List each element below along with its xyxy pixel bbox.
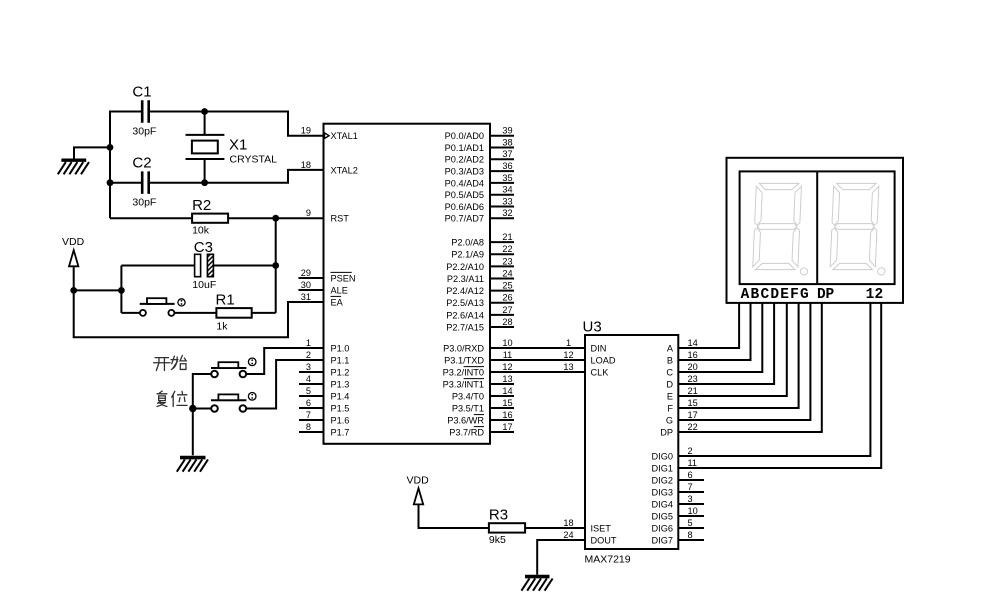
- svg-text:A: A: [667, 343, 674, 353]
- wire: [110, 112, 141, 219]
- svg-text:CLK: CLK: [591, 367, 610, 377]
- svg-text:2: 2: [688, 446, 693, 456]
- svg-text:20: 20: [688, 362, 698, 372]
- svg-text:D: D: [666, 379, 673, 389]
- svg-text:P3.6/WR: P3.6/WR: [447, 415, 484, 425]
- pin 12 LOAD: [563, 350, 616, 366]
- svg-text:8: 8: [306, 422, 311, 432]
- svg-text:A: A: [741, 287, 750, 303]
- pin 38 P0.1/AD1: [445, 137, 514, 153]
- svg-text:24: 24: [563, 530, 573, 540]
- svg-text:32: 32: [502, 208, 512, 218]
- svg-text:P2.4/A12: P2.4/A12: [446, 286, 484, 296]
- pin 39 P0.0/AD0: [445, 126, 514, 142]
- wire: [252, 312, 276, 314]
- pin 29 PSEN: [299, 268, 356, 284]
- display pin labels: [741, 287, 884, 303]
- pin 14 A: [667, 338, 698, 354]
- svg-text:F: F: [790, 287, 799, 303]
- pin 33 P0.6/AD6: [445, 196, 514, 212]
- svg-text:3: 3: [306, 362, 311, 372]
- pin 23 P2.2/A10: [446, 256, 514, 272]
- svg-text:33: 33: [502, 196, 512, 206]
- svg-text:5: 5: [688, 518, 693, 528]
- wire: [275, 218, 277, 313]
- wire: [121, 312, 139, 314]
- svg-text:16: 16: [502, 410, 512, 420]
- svg-text:P0.3/AD3: P0.3/AD3: [445, 167, 484, 177]
- svg-text:P3.4/T0: P3.4/T0: [452, 391, 484, 401]
- svg-text:P3.7/RD: P3.7/RD: [449, 427, 484, 437]
- svg-text:15: 15: [502, 398, 512, 408]
- svg-text:P0.2/AD2: P0.2/AD2: [445, 155, 484, 165]
- svg-text:1k: 1k: [216, 320, 228, 332]
- svg-text:R1: R1: [216, 292, 235, 309]
- pin 21 E: [667, 386, 698, 402]
- wire: [204, 112, 206, 183]
- svg-text:1: 1: [866, 287, 875, 303]
- svg-text:PSEN: PSEN: [331, 273, 356, 283]
- svg-text:1: 1: [306, 338, 311, 348]
- node junction: [272, 262, 279, 269]
- capacitor C2: [132, 155, 156, 209]
- pin 11 P3.1/TXD: [444, 350, 512, 366]
- pin 14 P3.4/T0: [452, 386, 514, 402]
- svg-text:30pF: 30pF: [132, 197, 156, 209]
- svg-text:DIG7: DIG7: [652, 535, 673, 545]
- svg-text:2: 2: [874, 287, 883, 303]
- svg-text:MAX7219: MAX7219: [585, 554, 631, 566]
- node junction: [70, 287, 77, 294]
- wire: [74, 147, 110, 158]
- pin 19 XTAL1: [301, 126, 358, 142]
- power VDD: [407, 475, 489, 529]
- node junction: [107, 144, 114, 151]
- svg-text:39: 39: [502, 126, 512, 136]
- svg-text:9: 9: [306, 208, 311, 218]
- svg-text:6: 6: [306, 398, 311, 408]
- wire segment A: [678, 303, 739, 348]
- svg-text:DIG1: DIG1: [652, 463, 673, 473]
- wire: [490, 359, 585, 361]
- svg-text:8: 8: [688, 530, 693, 540]
- svg-text:RST: RST: [331, 214, 350, 224]
- svg-text:10uF: 10uF: [192, 279, 216, 291]
- wire: [150, 112, 324, 136]
- digit 2 segments: [830, 183, 879, 269]
- pin 32 P0.7/AD7: [445, 208, 514, 224]
- pin 2 DIG0: [652, 446, 693, 462]
- svg-text:7: 7: [306, 410, 311, 420]
- svg-text:9k5: 9k5: [489, 534, 506, 546]
- svg-text:DOUT: DOUT: [591, 535, 617, 545]
- svg-text:14: 14: [502, 386, 512, 396]
- digit 2 dp: [878, 268, 885, 275]
- svg-text:P3.2/INT0: P3.2/INT0: [443, 367, 484, 377]
- svg-text:R2: R2: [192, 197, 211, 214]
- svg-text:B: B: [751, 287, 760, 303]
- pin 1 DIN: [566, 338, 606, 354]
- pin 26 P2.5/A13: [446, 293, 514, 309]
- wire segment E: [678, 303, 787, 396]
- svg-text:LOAD: LOAD: [591, 355, 616, 365]
- pin 24 P2.3/A11: [447, 268, 514, 284]
- svg-text:XTAL1: XTAL1: [331, 131, 358, 141]
- svg-text:27: 27: [502, 305, 512, 315]
- wire: [525, 527, 585, 529]
- svg-text:P0.1/AD1: P0.1/AD1: [445, 143, 484, 153]
- wire DIG4 stub: [678, 503, 704, 505]
- wire segment C: [678, 303, 762, 372]
- svg-text:15: 15: [688, 398, 698, 408]
- svg-text:P0.5/AD5: P0.5/AD5: [445, 190, 484, 200]
- svg-text:10: 10: [688, 506, 698, 516]
- pin 20 C: [666, 362, 697, 378]
- svg-text:5: 5: [306, 386, 311, 396]
- pin 8 DIG7: [652, 530, 693, 546]
- pin 5 DIG6: [652, 518, 693, 534]
- wire: [228, 217, 323, 219]
- wire: [246, 348, 323, 374]
- pin 6 DIG2: [652, 470, 693, 486]
- pin 8 P1.7: [299, 422, 349, 438]
- svg-text:11: 11: [503, 350, 513, 360]
- node junction: [201, 179, 208, 186]
- svg-text:P1.3: P1.3: [331, 379, 350, 389]
- pin 18 XTAL2: [301, 160, 358, 176]
- svg-text:22: 22: [688, 422, 698, 432]
- svg-text:P3.0/RXD: P3.0/RXD: [443, 343, 484, 353]
- pin 30 ALE: [299, 280, 348, 296]
- svg-text:26: 26: [502, 293, 512, 303]
- svg-text:P1.5: P1.5: [331, 403, 350, 413]
- node junction: [272, 215, 279, 222]
- svg-text:30: 30: [301, 280, 311, 290]
- svg-text:38: 38: [502, 137, 512, 147]
- wire DIG0: [678, 303, 870, 456]
- svg-text:23: 23: [688, 374, 698, 384]
- wire: [121, 265, 194, 267]
- pin 7 P1.6: [299, 410, 349, 426]
- svg-text:11: 11: [688, 458, 698, 468]
- pin 24 DOUT: [563, 530, 617, 546]
- wire segment D: [678, 303, 774, 384]
- svg-text:C: C: [666, 367, 673, 377]
- svg-text:D: D: [770, 287, 779, 303]
- svg-text:P2.0/A8: P2.0/A8: [451, 238, 484, 248]
- svg-text:X1: X1: [229, 137, 247, 154]
- svg-text:P3.3/INT1: P3.3/INT1: [443, 379, 484, 389]
- node junction: [118, 287, 125, 294]
- svg-text:29: 29: [301, 268, 311, 278]
- pin 31 EA: [301, 292, 344, 308]
- svg-text:17: 17: [502, 422, 512, 432]
- resistor R2: [192, 197, 228, 236]
- svg-text:C3: C3: [194, 239, 213, 256]
- capacitor C3: [192, 239, 216, 291]
- svg-text:34: 34: [502, 185, 512, 195]
- pin 21 P2.0/A8: [451, 232, 514, 248]
- pin 22 P2.1/A9: [451, 244, 514, 260]
- pin 11 DIG1: [652, 458, 698, 474]
- svg-text:35: 35: [502, 173, 512, 183]
- wire segment G: [678, 303, 810, 420]
- pin 28 P2.7/A15: [446, 317, 514, 333]
- pin 6 P1.5: [299, 398, 349, 414]
- pin 4 P1.3: [299, 374, 349, 390]
- svg-text:37: 37: [502, 149, 512, 159]
- svg-text:13: 13: [563, 362, 573, 372]
- svg-text:P: P: [825, 287, 834, 303]
- svg-text:VDD: VDD: [407, 475, 430, 487]
- pin 25 P2.4/A12: [446, 281, 514, 297]
- svg-text:16: 16: [688, 350, 698, 360]
- svg-text:28: 28: [502, 317, 512, 327]
- svg-text:ISET: ISET: [591, 523, 612, 533]
- wire: [193, 374, 211, 455]
- svg-text:U3: U3: [583, 319, 602, 336]
- svg-text:P2.2/A10: P2.2/A10: [446, 262, 484, 272]
- pin 1 P1.0: [306, 338, 350, 354]
- resistor R3: [489, 507, 525, 546]
- svg-text:23: 23: [502, 256, 512, 266]
- svg-text:2: 2: [306, 350, 311, 360]
- wire: [246, 360, 323, 409]
- wire segment B: [678, 303, 750, 360]
- svg-text:17: 17: [688, 410, 698, 420]
- pin 17 G: [666, 410, 698, 426]
- svg-text:13: 13: [502, 374, 512, 384]
- wire: [193, 408, 211, 410]
- svg-text:B: B: [667, 355, 673, 365]
- svg-text:DIG0: DIG0: [652, 451, 673, 461]
- svg-text:G: G: [800, 287, 809, 303]
- display DS1: [727, 158, 904, 303]
- wire DIG3 stub: [678, 491, 704, 493]
- svg-text:P3.5/T1: P3.5/T1: [452, 403, 484, 413]
- label kaishi: [154, 356, 187, 371]
- pin 7 DIG3: [652, 482, 693, 498]
- pin 36 P0.3/AD3: [445, 161, 514, 177]
- svg-text:18: 18: [301, 160, 311, 170]
- wire: [490, 371, 585, 373]
- pin 3 P1.2: [299, 362, 349, 378]
- pushbutton reset: [211, 393, 256, 412]
- pin 3 DIG4: [652, 494, 693, 510]
- ground: [177, 458, 208, 472]
- pin 17 P3.7/RD: [449, 422, 514, 438]
- wire: [174, 312, 216, 314]
- svg-text:P2.3/A11: P2.3/A11: [447, 274, 484, 284]
- node junction: [189, 405, 196, 412]
- wire: [120, 266, 122, 313]
- digit 1 segments: [753, 183, 802, 269]
- svg-text:36: 36: [502, 161, 512, 171]
- svg-text:12: 12: [563, 350, 573, 360]
- wire segment DP: [678, 303, 822, 432]
- wire: [490, 347, 585, 349]
- svg-text:C2: C2: [132, 155, 151, 172]
- wire: [537, 540, 585, 575]
- pin 22 DP: [660, 422, 698, 438]
- svg-text:P2.1/A9: P2.1/A9: [451, 250, 484, 260]
- svg-text:P1.1: P1.1: [331, 355, 350, 365]
- svg-text:CRYSTAL: CRYSTAL: [230, 154, 278, 166]
- svg-text:P1.7: P1.7: [331, 427, 350, 437]
- wire DIG2 stub: [678, 479, 704, 481]
- wire segment F: [678, 303, 798, 408]
- svg-text:12: 12: [502, 362, 512, 372]
- svg-text:P1.2: P1.2: [331, 367, 350, 377]
- ground: [521, 577, 552, 591]
- crystal X1: [186, 135, 278, 166]
- svg-text:E: E: [780, 287, 789, 303]
- pin 10 DIG5: [652, 506, 698, 522]
- svg-text:P2.7/A15: P2.7/A15: [446, 322, 484, 332]
- pin 2 P1.1: [306, 350, 350, 366]
- label fuwei: [157, 391, 187, 406]
- svg-text:22: 22: [502, 244, 512, 254]
- driver U3: [583, 319, 679, 566]
- svg-text:25: 25: [502, 281, 512, 291]
- svg-text:EA: EA: [331, 297, 344, 307]
- svg-text:7: 7: [688, 482, 693, 492]
- node junction: [201, 108, 208, 115]
- pin 23 D: [666, 374, 697, 390]
- wire DIG6 stub: [678, 527, 704, 529]
- pin 35 P0.4/AD4: [445, 173, 514, 189]
- svg-text:3: 3: [688, 494, 693, 504]
- svg-text:P3.1/TXD: P3.1/TXD: [444, 355, 484, 365]
- wire: [110, 182, 141, 184]
- svg-text:XTAL2: XTAL2: [331, 165, 358, 175]
- pushbutton start: [211, 358, 256, 377]
- svg-text:21: 21: [502, 232, 512, 242]
- wire DIG1: [678, 303, 881, 468]
- digit 1 dp: [800, 268, 807, 275]
- svg-text:P2.6/A14: P2.6/A14: [446, 310, 484, 320]
- svg-text:ALE: ALE: [331, 285, 348, 295]
- svg-text:21: 21: [688, 386, 698, 396]
- pin 5 P1.4: [299, 386, 349, 402]
- pin 16 P3.6/WR: [447, 410, 514, 426]
- wire DIG7 stub: [678, 539, 704, 541]
- svg-text:P2.5/A13: P2.5/A13: [446, 298, 484, 308]
- svg-text:C1: C1: [132, 84, 151, 101]
- svg-text:R3: R3: [489, 507, 508, 524]
- svg-text:P1.0: P1.0: [331, 343, 350, 353]
- pin 10 P3.0/RXD: [443, 338, 512, 354]
- power VDD: [62, 236, 85, 290]
- svg-text:24: 24: [502, 268, 512, 278]
- svg-text:F: F: [667, 403, 673, 413]
- svg-text:P0.0/AD0: P0.0/AD0: [445, 131, 484, 141]
- pin 13 CLK: [563, 362, 609, 378]
- svg-text:P0.7/AD7: P0.7/AD7: [445, 214, 484, 224]
- svg-text:P1.6: P1.6: [331, 415, 350, 425]
- pushbutton: [140, 298, 185, 316]
- wire: [74, 289, 122, 291]
- svg-text:31: 31: [301, 292, 311, 302]
- pin 15 F: [667, 398, 697, 414]
- svg-text:DIG3: DIG3: [652, 487, 673, 497]
- pin 12 P3.2/INT0: [443, 362, 513, 378]
- mcu U1: [324, 124, 491, 444]
- pin 27 P2.6/A14: [446, 305, 514, 321]
- wire: [150, 170, 324, 183]
- wire: [214, 265, 276, 267]
- svg-text:18: 18: [563, 518, 573, 528]
- ground: [58, 160, 89, 174]
- svg-text:C: C: [760, 287, 769, 303]
- svg-text:G: G: [666, 415, 673, 425]
- node junction: [107, 179, 114, 186]
- svg-text:14: 14: [688, 338, 698, 348]
- svg-text:DIG4: DIG4: [652, 499, 673, 509]
- pin 15 P3.5/T1: [452, 398, 514, 414]
- capacitor C1: [132, 84, 156, 138]
- svg-text:VDD: VDD: [62, 236, 85, 248]
- wire: [110, 217, 192, 219]
- resistor R1: [216, 292, 252, 333]
- pin 34 P0.5/AD5: [445, 185, 514, 201]
- wire DIG5 stub: [678, 515, 704, 517]
- wire: [74, 290, 324, 337]
- svg-text:10k: 10k: [192, 225, 210, 237]
- svg-text:P1.4: P1.4: [331, 391, 350, 401]
- svg-text:30pF: 30pF: [132, 126, 156, 138]
- pin 37 P0.2/AD2: [445, 149, 514, 165]
- svg-text:4: 4: [306, 374, 311, 384]
- svg-text:DP: DP: [660, 427, 673, 437]
- pin 18 ISET: [563, 518, 611, 534]
- svg-text:P0.4/AD4: P0.4/AD4: [445, 178, 484, 188]
- svg-text:1: 1: [566, 338, 571, 348]
- svg-text:P0.6/AD6: P0.6/AD6: [445, 202, 484, 212]
- svg-text:E: E: [667, 391, 673, 401]
- svg-text:19: 19: [301, 126, 311, 136]
- svg-text:6: 6: [688, 470, 693, 480]
- pin 13 P3.3/INT1: [443, 374, 514, 390]
- pin 9 RST: [306, 208, 349, 224]
- svg-text:DIG2: DIG2: [652, 475, 673, 485]
- svg-text:DIG6: DIG6: [652, 523, 673, 533]
- svg-text:10: 10: [502, 338, 512, 348]
- svg-text:DIN: DIN: [591, 343, 607, 353]
- svg-text:DIG5: DIG5: [652, 511, 673, 521]
- pin 16 B: [667, 350, 698, 366]
